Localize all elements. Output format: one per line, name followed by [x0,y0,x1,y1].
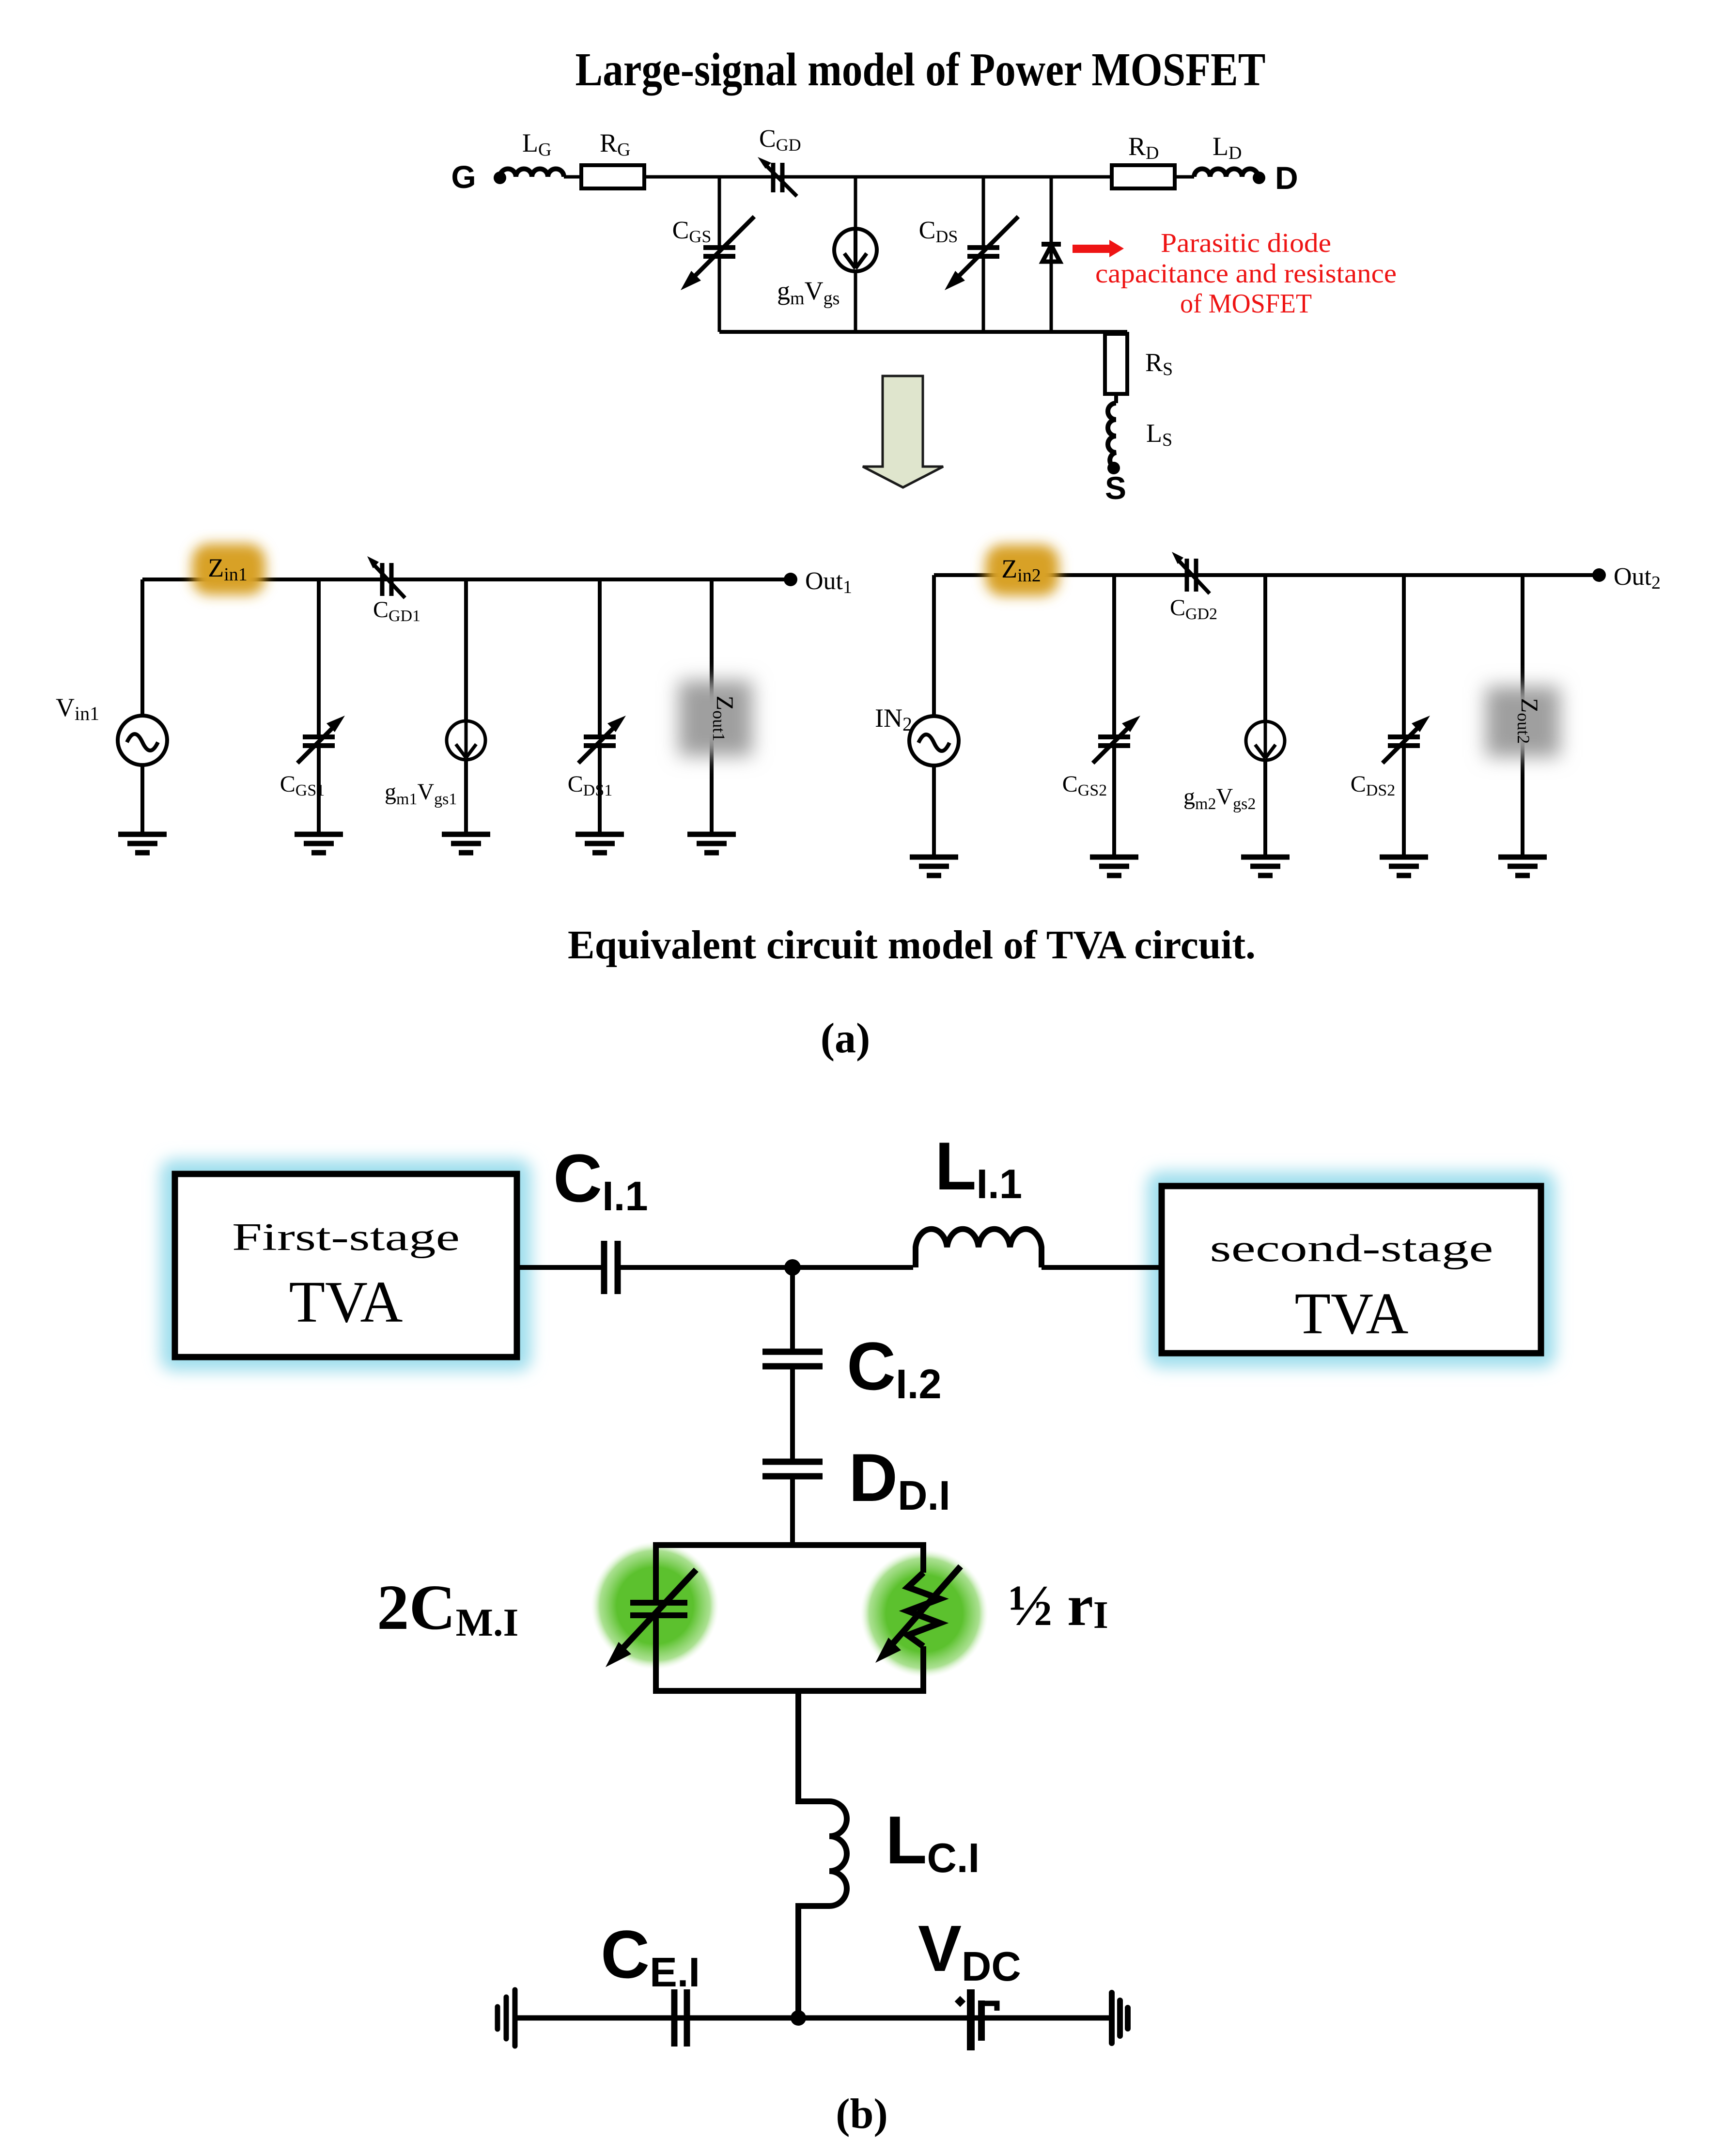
inductor LD [1194,169,1258,177]
ground (right, sideways) [1112,1993,1128,2043]
resistor RS [1105,334,1127,394]
capacitor CI.1 [601,1241,607,1294]
wire: box1 to CI.1 [517,1265,602,1270]
green glow (1/2 rI) [860,1549,988,1677]
inductor LS [1108,403,1116,467]
capacitor CGS1 (variable) [297,579,345,834]
source IN2 [909,575,959,857]
bottom source rail of MOSFET model [719,330,1127,334]
capacitor CGS2 (variable) [1093,575,1140,857]
node Zin1 (highlight) [192,544,265,595]
junction node (rail) [791,2010,806,2026]
svg-text:S: S [1105,470,1126,506]
wire: DD.I to parallel box [790,1476,795,1545]
ground (Vin1) [118,834,167,853]
block: First-stage TVA (cyan glow) [160,1159,531,1371]
load Zout1 [679,579,752,834]
wire: LC.I to bottom rail [798,1906,829,2018]
node Zin2 (highlight) [985,545,1059,596]
ground (gm2Vgs2) [1241,857,1290,875]
svg-text:Equivalent circuit model of TV: Equivalent circuit model of TVA circuit. [568,922,1256,968]
current source gmVgs [834,177,877,332]
svg-text:Large-signal model of Power MO: Large-signal model of Power MOSFET [575,44,1266,95]
capacitor 2CM.I (variable, on left edge) [606,1570,696,1667]
wire: CI.1 to node [618,1265,913,1270]
wire: box to LC.I [798,1691,829,1801]
node Out2 [1592,568,1606,582]
capacitor CGS (variable) [681,177,754,332]
block: second-stage TVA (cyan glow) [1147,1172,1555,1368]
wire RS to LS [1114,394,1118,403]
svg-text:Parasitic diode: Parasitic diode [1161,228,1331,258]
big transition arrow [863,376,943,487]
battery VDC [955,1989,997,2050]
parallel element box [656,1545,923,1691]
capacitor DD.I [762,1459,823,1465]
capacitor CDS (variable) [945,177,1018,332]
ground (Zout2) [1498,857,1547,875]
red annotation arrow [1073,240,1124,257]
current source gm1Vgs1 [447,579,485,834]
inductor LC.I [829,1801,847,1906]
inductor LG [500,169,564,177]
wire: node down to CI.2 [790,1267,795,1351]
resistor RD [1112,165,1175,188]
capacitor CGD2 (variable, on rail) [1172,552,1210,594]
current source gm2Vgs2 [1246,575,1285,857]
bottom DC rail [515,2015,1110,2021]
ground (CGS2) [1090,857,1138,875]
capacitor CGD1 (variable, on rail) [367,556,405,598]
svg-text:TVA: TVA [1294,1281,1408,1346]
ground (IN2) [910,857,958,875]
wire RD to LD [1175,175,1194,179]
source Vin1 [118,579,167,834]
wire RG to RD (main gate-drain rail) [644,175,1112,179]
wire LG to RG [564,175,581,179]
svg-text:G: G [451,159,476,195]
capacitor CDS2 (variable) [1383,575,1430,857]
wire: top rail circuit 1 [142,578,791,581]
wire: top rail circuit 2 [934,573,1599,577]
svg-text:D: D [1275,160,1298,196]
svg-text:TVA: TVA [289,1269,403,1335]
node Out1 [784,573,797,586]
resistor 1/2 rI (variable, on right edge) [875,1566,961,1663]
resistor RG [581,165,644,188]
node D terminal [1253,172,1265,184]
ground (gm1Vgs1) [442,834,490,853]
capacitor CE.I [671,1989,678,2047]
load Zout2 [1486,575,1560,857]
svg-text:second-stage: second-stage [1210,1227,1493,1270]
svg-text:(a): (a) [821,1015,871,1062]
ground (CDS1) [575,834,624,853]
svg-text:capacitance and resistance: capacitance and resistance [1095,259,1397,289]
inductor LI.1 [916,1229,1042,1267]
capacitor CGD (variable, on rail) [758,157,797,196]
svg-text:First-stage: First-stage [232,1216,460,1259]
svg-text:(b): (b) [836,2091,888,2138]
node S terminal [1107,462,1120,474]
capacitor CI.2 [762,1349,823,1355]
svg-text:of MOSFET: of MOSFET [1180,289,1312,319]
junction node [784,1259,801,1276]
wire: CI.2 to DD.I [790,1366,795,1461]
ground (CGS1) [295,834,343,853]
capacitor CDS1 (variable) [578,579,626,834]
green glow (2CM.I) [591,1542,719,1670]
diode (parasitic body diode) [1042,177,1061,332]
ground (left, sideways) [498,1990,515,2046]
wire: LI.1 to box2 [1042,1265,1162,1270]
ground (CDS2) [1380,857,1428,875]
ground (Zout1) [687,834,736,853]
